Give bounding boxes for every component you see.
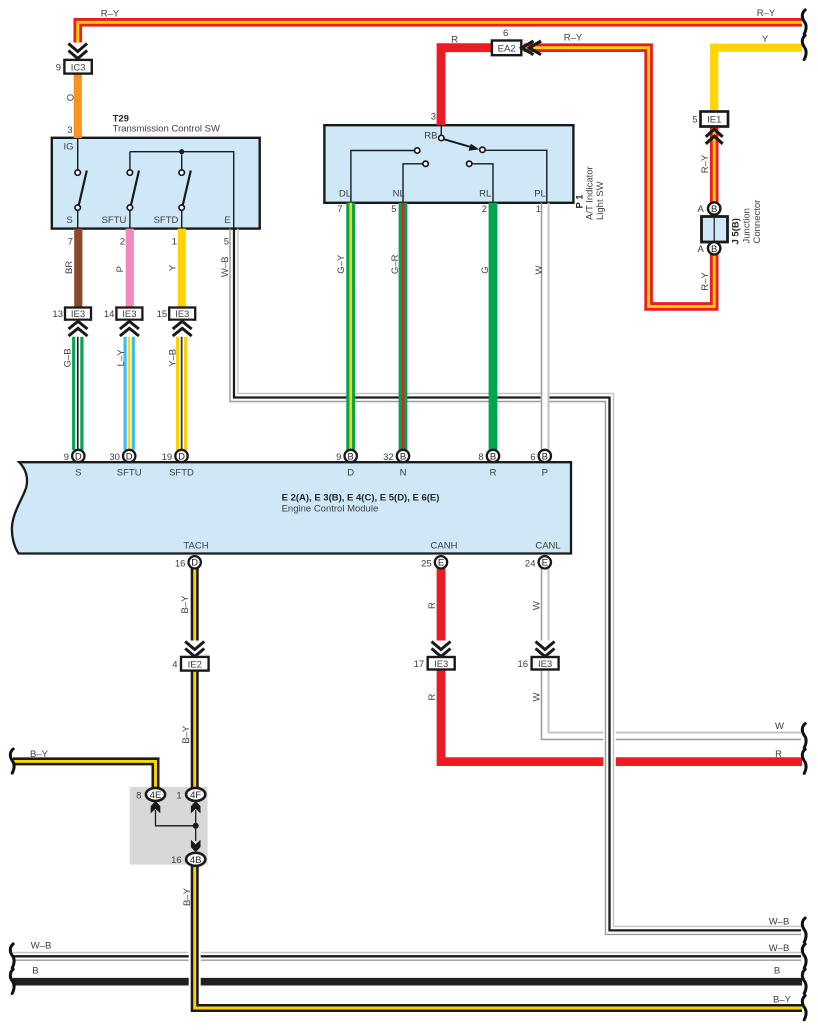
wire G-B: 13 IE3 to ECM 9(D) — [74, 321, 82, 451]
P1 rotor blade with arrow — [444, 139, 479, 151]
svg-text:16: 16 — [175, 558, 186, 569]
svg-text:SFTU: SFTU — [117, 467, 142, 478]
svg-text:CANL: CANL — [535, 541, 560, 552]
svg-text:IE3: IE3 — [175, 309, 189, 320]
label W wire at CANL — [532, 601, 543, 610]
svg-text:S: S — [66, 215, 72, 226]
svg-text:R–Y: R–Y — [700, 272, 711, 291]
svg-text:4F: 4F — [190, 790, 201, 801]
label L-Y wire — [116, 349, 127, 367]
wire P: T29 SFTU to 14 IE3 — [126, 229, 134, 308]
wire R-Y: EA2 right, down, to J5B bottom — [524, 48, 715, 307]
label P wire — [115, 266, 126, 272]
arrow into IE2 (double chevron down) — [183, 641, 207, 657]
svg-text:Junction: Junction — [742, 208, 753, 243]
svg-text:NL: NL — [393, 189, 405, 200]
P1 DL branch — [351, 148, 420, 202]
P1 RL branch — [467, 161, 494, 202]
arrow into 16 IE3 (double chevron down) — [534, 641, 558, 657]
connector 16 IE3 — [518, 657, 559, 670]
svg-text:1: 1 — [172, 237, 177, 248]
svg-text:B: B — [711, 244, 717, 255]
break left B — [10, 969, 14, 993]
svg-text:9: 9 — [64, 452, 69, 463]
svg-text:25: 25 — [421, 558, 432, 569]
wire B-Y: ECM TACH to IE2 — [191, 569, 199, 657]
svg-text:8: 8 — [136, 790, 141, 801]
break right B-Y — [802, 996, 806, 1020]
break left W-B — [10, 944, 14, 968]
svg-text:E: E — [542, 558, 548, 569]
svg-text:4B: 4B — [190, 855, 202, 866]
connector IC3 pin 9 — [56, 60, 92, 74]
T29 terminal labels — [64, 142, 231, 227]
arrow into IC3 (double chevron down) — [66, 43, 91, 61]
label Y wire — [167, 264, 178, 271]
svg-text:24: 24 — [525, 558, 536, 569]
svg-text:G–Y: G–Y — [336, 254, 347, 274]
label O wire — [66, 94, 77, 101]
junction connector J5B top circle B — [697, 202, 720, 215]
pin 8(B) R — [478, 450, 499, 479]
svg-text:P: P — [542, 467, 548, 478]
svg-text:B: B — [400, 451, 406, 462]
label R-Y wire above J5B — [700, 154, 711, 173]
svg-text:R: R — [451, 34, 458, 45]
wire W-B: T29 E down, right, down at x611, right to break — [230, 229, 801, 935]
arrow out of 14 IE3 (double chevron up) — [119, 321, 140, 337]
wire O: IC3 to T29 pin 3 — [74, 74, 82, 138]
svg-text:R: R — [490, 467, 497, 478]
svg-text:30: 30 — [109, 452, 120, 463]
svg-text:32: 32 — [383, 452, 394, 463]
svg-text:D: D — [75, 451, 82, 462]
svg-text:D: D — [178, 451, 185, 462]
P1 PL branch from selected contact — [480, 147, 547, 202]
wire W-B: left break to right break horizontal — [13, 953, 801, 961]
svg-text:D: D — [126, 451, 133, 462]
break right R — [802, 749, 806, 773]
svg-text:5: 5 — [692, 114, 697, 125]
P1 terminal labels — [339, 130, 546, 199]
break right W-B 1 — [802, 918, 806, 942]
wire L-Y: 14 IE3 to ECM 30(D) — [125, 321, 133, 451]
label G-Y wire — [336, 254, 347, 274]
pin 6(B) P — [530, 450, 551, 479]
label W-B right upper — [769, 916, 790, 927]
svg-text:B–Y: B–Y — [182, 887, 193, 906]
gray box internal links with arrows — [151, 801, 201, 852]
svg-text:D: D — [347, 467, 354, 478]
svg-text:1: 1 — [176, 790, 181, 801]
svg-text:W–B: W–B — [769, 943, 790, 954]
P1 NL branch — [403, 161, 428, 202]
svg-text:DL: DL — [339, 189, 351, 200]
svg-text:J 5(B): J 5(B) — [731, 218, 742, 244]
wire Y: IE1 top to right break — [714, 48, 802, 112]
label R wire below 17 IE3 — [427, 693, 438, 700]
label W wire below 16 IE3 — [532, 692, 543, 701]
svg-text:W–B: W–B — [31, 941, 52, 952]
label B-Y left — [30, 749, 49, 760]
label G wire — [480, 266, 491, 273]
junction connector J5B bottom circle B — [697, 242, 720, 255]
label BR wire — [64, 261, 75, 274]
svg-text:R–Y: R–Y — [700, 154, 711, 173]
label G-R wire — [390, 254, 401, 274]
svg-text:RB: RB — [424, 130, 437, 141]
wire W: P1 PL to ECM 6(B) — [541, 203, 550, 450]
arrow out of 15 IE3 (double chevron up) — [172, 321, 193, 337]
arrow into 17 IE3 (double chevron down) — [430, 641, 454, 657]
break right B — [802, 969, 806, 993]
svg-text:W: W — [534, 265, 545, 274]
svg-text:6: 6 — [503, 28, 508, 39]
wire W: ECM CANL to 16 IE3 — [542, 569, 549, 658]
break right W-B 2 — [802, 944, 806, 968]
svg-text:R: R — [775, 749, 782, 760]
label R-Y at EA2 — [564, 33, 583, 44]
wire B: left break to right break thick black — [13, 978, 802, 986]
T29 switch 2 SFTU contacts and blade — [127, 152, 139, 228]
svg-text:B–Y: B–Y — [181, 725, 192, 744]
svg-text:8: 8 — [478, 452, 483, 463]
wire B-Y: 4B down then right to break (drawn over horizontals) — [189, 866, 802, 1008]
svg-text:R: R — [427, 602, 438, 609]
wire Y: T29 SFTD to 15 IE3 — [178, 229, 186, 308]
svg-text:17: 17 — [414, 659, 425, 670]
svg-text:E: E — [438, 558, 444, 569]
svg-text:W: W — [775, 721, 784, 732]
junction connector J5B body — [702, 217, 728, 243]
svg-text:5: 5 — [391, 204, 396, 215]
wire R: ECM CANH to 17 IE3 — [437, 569, 446, 658]
svg-text:B: B — [348, 451, 354, 462]
pin 30(D) SFTU — [109, 450, 141, 479]
wire R-Y main: top-left corner to right break — [78, 22, 802, 45]
svg-text:R–Y: R–Y — [564, 33, 583, 44]
svg-text:4: 4 — [172, 659, 177, 670]
svg-text:6: 6 — [530, 452, 535, 463]
ECM bottom pin CANH 25(E) — [421, 541, 457, 570]
svg-text:B–Y: B–Y — [773, 994, 792, 1005]
J5B side title — [731, 200, 764, 245]
connector 15 IE3 — [157, 308, 196, 321]
svg-text:7: 7 — [68, 237, 73, 248]
svg-text:E 2(A), E 3(B), E 4(C), E 5(D): E 2(A), E 3(B), E 4(C), E 5(D), E 6(E) — [282, 493, 440, 504]
svg-text:W–B: W–B — [769, 916, 790, 927]
T29 internal bus line to E — [130, 149, 234, 228]
svg-text:R–Y: R–Y — [101, 9, 120, 20]
svg-text:SFTU: SFTU — [102, 215, 127, 226]
svg-text:Light SW: Light SW — [595, 181, 606, 220]
svg-text:3: 3 — [431, 112, 436, 123]
junction 4F oval — [176, 788, 205, 801]
pin 32(B) N — [383, 450, 409, 479]
wire B-Y: IE2 to 4F — [191, 671, 199, 789]
label W right — [775, 721, 784, 732]
T29 switch 1 contact wire from IG — [77, 139, 79, 170]
label R at EA2 — [451, 34, 458, 45]
transmission control switch T29 box — [52, 138, 260, 229]
svg-text:O: O — [66, 94, 77, 101]
svg-text:G–R: G–R — [390, 254, 401, 274]
svg-text:EA2: EA2 — [498, 43, 516, 54]
break right Y top — [802, 35, 806, 59]
wire W: 16 IE3 down and right to break — [542, 670, 802, 740]
arrow out of 13 IE3 (double chevron up) — [68, 321, 89, 337]
connector 17 IE3 — [414, 657, 455, 670]
label R right — [775, 749, 782, 760]
svg-text:IE3: IE3 — [122, 309, 136, 320]
T29 switch 3 SFTD contacts and blade — [179, 155, 191, 229]
label B left — [32, 965, 38, 976]
engine control module box — [12, 462, 571, 553]
label R-Y top left — [101, 9, 120, 20]
svg-text:1: 1 — [536, 204, 541, 215]
svg-text:IG: IG — [64, 142, 74, 153]
label W-B left — [31, 941, 52, 952]
label W-B wire at T29 — [220, 257, 231, 278]
label Y-B wire — [168, 349, 179, 367]
wire B-Y: left break to 4E — [13, 761, 156, 788]
svg-text:S: S — [75, 467, 81, 478]
ECM bottom pin TACH 16(D) — [175, 541, 209, 570]
svg-text:BR: BR — [64, 261, 75, 274]
label B right — [774, 965, 780, 976]
label B-Y right — [773, 994, 792, 1005]
label W-B right lower — [769, 943, 790, 954]
svg-text:G: G — [480, 266, 491, 273]
svg-text:3: 3 — [67, 125, 72, 136]
svg-text:R–Y: R–Y — [757, 8, 776, 19]
svg-text:Y: Y — [167, 264, 178, 271]
svg-text:13: 13 — [52, 309, 63, 320]
svg-text:Transmission Control SW: Transmission Control SW — [113, 123, 220, 134]
junction 4B oval — [171, 853, 205, 866]
label W wire at PL — [534, 265, 545, 274]
pin 9(B) D — [336, 450, 357, 479]
connector 13 IE3 — [52, 308, 91, 321]
svg-text:IE3: IE3 — [538, 659, 552, 670]
P1 side title — [575, 166, 607, 220]
svg-text:L–Y: L–Y — [116, 349, 127, 367]
svg-text:B–Y: B–Y — [30, 749, 49, 760]
break right W — [802, 724, 806, 748]
wire BR: T29 S to 13 IE3 — [74, 229, 82, 308]
ECM title — [282, 493, 440, 515]
label G-B wire — [62, 348, 73, 367]
svg-text:Y: Y — [762, 34, 769, 45]
svg-text:2: 2 — [482, 204, 487, 215]
svg-text:Connector: Connector — [752, 200, 763, 244]
label B-Y wire below IE2 — [181, 725, 192, 744]
label B-Y wire at TACH — [180, 595, 191, 614]
svg-text:W–B: W–B — [220, 257, 231, 278]
break right R-Y top — [802, 10, 806, 34]
svg-text:16: 16 — [171, 855, 182, 866]
ECM bottom pin CANL 24(E) — [525, 541, 561, 570]
svg-text:SFTD: SFTD — [154, 215, 179, 226]
break left B-Y — [10, 749, 14, 773]
svg-text:TACH: TACH — [183, 541, 208, 552]
svg-text:R: R — [427, 693, 438, 700]
junction block 4E/4F/4B gray box — [130, 787, 208, 865]
svg-text:B–Y: B–Y — [180, 595, 191, 614]
wire G: P1 RL to ECM 8(B) — [489, 203, 498, 450]
svg-text:9: 9 — [56, 62, 61, 73]
svg-text:W: W — [532, 601, 543, 610]
svg-text:Engine Control Module: Engine Control Module — [282, 504, 379, 515]
svg-text:4E: 4E — [150, 790, 162, 801]
T29 switch 1 S contacts and blade — [75, 170, 87, 228]
svg-text:A/T Indicator: A/T Indicator — [585, 166, 596, 220]
label R-Y top right — [757, 8, 776, 19]
svg-text:B: B — [32, 965, 38, 976]
svg-text:19: 19 — [162, 452, 173, 463]
wire R: 17 IE3 down and right to break — [441, 670, 802, 762]
connector 14 IE3 — [104, 308, 143, 321]
svg-text:RL: RL — [479, 189, 491, 200]
svg-text:W: W — [532, 692, 543, 701]
svg-text:B: B — [542, 451, 548, 462]
wire R-Y: J5B top to IE1 arrow — [710, 128, 719, 203]
arrow into EA2 (double chevron left) — [522, 41, 541, 55]
P1 pin numbers — [337, 112, 541, 215]
svg-text:9: 9 — [336, 452, 341, 463]
A/T indicator light switch P1 box — [324, 125, 573, 203]
svg-text:D: D — [191, 558, 198, 569]
label R wire at CANH — [427, 602, 438, 609]
connector IE1 pin 5 — [692, 112, 728, 127]
T29 pin numbers — [67, 125, 229, 248]
label R-Y wire below J5B — [700, 272, 711, 291]
wire G-R: P1 NL to ECM 32(B) — [399, 203, 408, 450]
svg-text:SFTD: SFTD — [169, 467, 194, 478]
svg-text:14: 14 — [104, 309, 115, 320]
svg-text:16: 16 — [518, 659, 529, 670]
label B-Y wire below 4B — [182, 887, 193, 906]
svg-text:7: 7 — [337, 204, 342, 215]
svg-text:2: 2 — [120, 237, 125, 248]
svg-text:N: N — [400, 467, 407, 478]
svg-text:CANH: CANH — [431, 541, 458, 552]
wire G-Y: P1 DL to ECM 9(B) — [346, 203, 355, 450]
pin 19(D) SFTD — [162, 450, 194, 479]
svg-text:P: P — [115, 266, 126, 272]
svg-text:B: B — [774, 965, 780, 976]
T29 title — [113, 114, 220, 135]
connector 4 IE2 — [172, 657, 208, 671]
svg-text:IE3: IE3 — [71, 309, 85, 320]
pin 9(D) S — [64, 450, 85, 479]
wire R: EA2 to P1 pin 3 — [441, 48, 492, 126]
svg-text:B: B — [490, 451, 496, 462]
svg-text:E: E — [224, 215, 230, 226]
svg-text:IE3: IE3 — [434, 659, 448, 670]
label Y top right — [762, 34, 769, 45]
svg-text:IE1: IE1 — [707, 115, 721, 126]
svg-text:IC3: IC3 — [71, 62, 86, 73]
wire Y-B: 15 IE3 to ECM 19(D) — [178, 321, 186, 451]
arrow into IE1 (double chevron up) — [706, 129, 723, 144]
svg-text:IE2: IE2 — [188, 659, 202, 670]
svg-text:G–B: G–B — [62, 348, 73, 367]
svg-text:A: A — [697, 244, 704, 255]
svg-text:15: 15 — [157, 309, 168, 320]
P1 RB contact from pin 3 — [439, 126, 444, 141]
svg-text:5: 5 — [224, 237, 229, 248]
svg-text:Y–B: Y–B — [168, 349, 179, 367]
svg-text:B: B — [711, 204, 717, 215]
svg-text:PL: PL — [534, 189, 546, 200]
connector EA2 pin 6 — [492, 28, 521, 55]
junction 4E oval — [136, 788, 165, 801]
svg-text:A: A — [697, 204, 704, 215]
